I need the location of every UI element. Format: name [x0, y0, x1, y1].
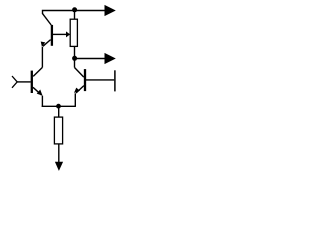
- terminal bar at Q2 base: [114, 70, 116, 91]
- resistor R1 potentiometer body: [70, 19, 77, 46]
- transistor Q3 base bar: [31, 71, 33, 93]
- transistor Q1 emitter arrow: [41, 42, 46, 47]
- terminal arrow output mid: [105, 53, 116, 64]
- wire resistor R1 top stub: [74, 11, 76, 20]
- transistor Q1 base wire to wiper: [53, 33, 67, 35]
- transistor Q3 emitter arrow: [37, 90, 43, 96]
- wire resistor R2 bottom stub: [58, 144, 60, 163]
- resistor R2: [54, 117, 62, 144]
- node top junction: [72, 7, 77, 12]
- node bottom junction: [56, 104, 61, 109]
- wire output 2: [75, 58, 105, 60]
- terminal arrow output top: [105, 5, 116, 16]
- terminal arrow bottom: [55, 162, 63, 171]
- transistor Q2 collector lead: [75, 68, 84, 78]
- wire bottom rail: [42, 105, 76, 107]
- transistor Q2 emitter lead: [76, 86, 84, 93]
- node mid junction: [72, 56, 77, 61]
- transistor Q1 base bar: [51, 25, 53, 46]
- transistor Q2 base wire: [86, 79, 114, 81]
- wire resistor R1 bottom to Q2 collector corner: [74, 46, 76, 67]
- transistor Q2 base bar: [84, 69, 86, 91]
- transistor Q3 base wire: [17, 81, 31, 83]
- wire Q1 emitter to Q3 collector: [41, 47, 43, 68]
- transistor Q1 emitter lead: [43, 40, 51, 47]
- transistor Q1 collector lead: [43, 14, 52, 25]
- wire Q2 emitter riser: [74, 93, 76, 107]
- potentiometer wiper arrow: [66, 31, 70, 37]
- wire Q3 emitter riser: [41, 96, 43, 107]
- transistor Q2 emitter arrow: [74, 88, 80, 93]
- wire top rail: [43, 11, 105, 15]
- transistor Q3 emitter lead: [33, 87, 42, 95]
- wire resistor R2 top stub: [58, 106, 60, 117]
- input chevron: [12, 76, 17, 88]
- transistor Q3 collector lead: [33, 67, 42, 76]
